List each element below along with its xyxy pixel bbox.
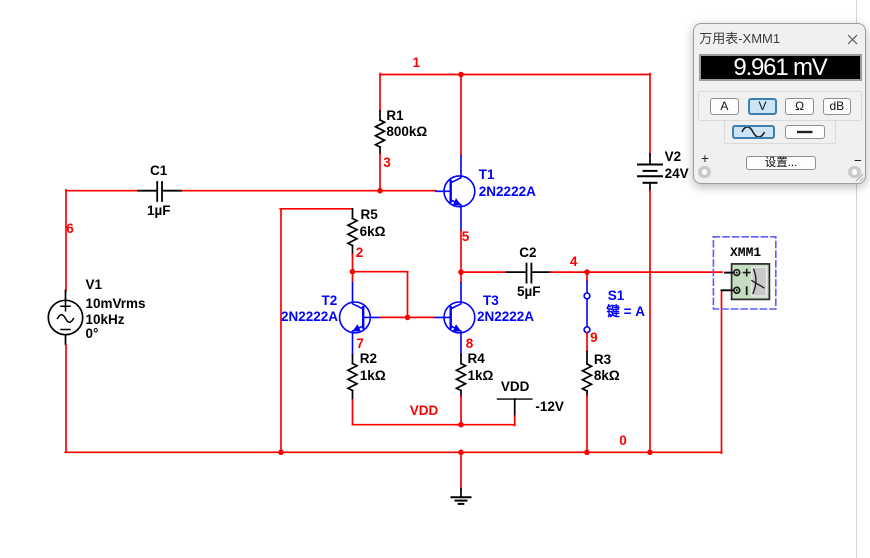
wire left inner vertical <box>280 209 282 452</box>
capacitor C2 <box>507 264 551 283</box>
wire R4 bottom <box>460 396 462 425</box>
label R2 <box>360 352 377 366</box>
junction bottom V2 <box>647 450 653 456</box>
node 2 <box>356 246 364 260</box>
node 8 <box>466 337 474 351</box>
label R1 <box>386 109 403 123</box>
label C2 value <box>517 285 541 299</box>
multimeter dialog XMM1 <box>693 23 866 184</box>
resistor R1 <box>376 111 385 154</box>
dialog close button <box>847 34 858 45</box>
wire T3 collector red stub <box>460 272 462 283</box>
label R3 value <box>594 369 620 383</box>
dialog resize grip <box>854 172 864 182</box>
node 1 <box>413 56 421 70</box>
button V selected <box>748 98 777 116</box>
junction bottom R3 <box>584 450 590 456</box>
label R5 value <box>360 225 386 239</box>
button DC <box>785 125 825 139</box>
button dB <box>823 98 852 116</box>
wire T1 collector red <box>460 75 462 157</box>
label T1 part <box>479 185 536 199</box>
label C2 <box>519 246 536 260</box>
wire XMM1 minus down <box>721 290 723 453</box>
wire R5 feed horizontal <box>280 208 352 210</box>
wire R1 top lead <box>379 74 381 111</box>
wire T2 collector red stub <box>352 272 354 283</box>
switch S1 <box>584 281 590 333</box>
node 3 <box>383 156 391 170</box>
label T3 <box>483 294 499 308</box>
label T2 part <box>281 310 338 324</box>
transistor T3 <box>434 283 475 355</box>
label T2 <box>322 294 338 308</box>
dialog right terminal <box>848 166 861 179</box>
resistor R3 <box>583 352 592 396</box>
wire V2 top <box>649 74 651 154</box>
junction node 5 <box>458 269 464 275</box>
label R3 <box>594 353 611 367</box>
node 5 <box>462 230 470 244</box>
label V1 freq <box>86 313 125 327</box>
button A <box>710 98 739 116</box>
label T1 <box>479 168 495 182</box>
dialog plus mark <box>701 151 709 166</box>
wire bottom rail <box>65 451 721 453</box>
button ohm <box>785 98 814 116</box>
wire node 9 <box>586 333 588 352</box>
transistor T1 <box>436 156 475 231</box>
button sine selected <box>732 125 775 139</box>
button settings <box>746 156 816 171</box>
node 7 <box>356 337 364 351</box>
wire R3 bottom <box>586 396 588 453</box>
label S1 <box>608 289 625 303</box>
wire V2 bottom <box>649 191 651 453</box>
label VDD net <box>410 404 439 418</box>
label S1 key <box>606 305 645 319</box>
label R2 value <box>360 369 386 383</box>
dialog title <box>699 28 780 47</box>
junction node 3 <box>377 188 383 194</box>
wire T2 emitter red and VDD rail <box>353 398 515 424</box>
label R4 <box>468 352 485 366</box>
resistor R5 <box>348 209 357 254</box>
junction node 2 <box>350 269 356 275</box>
wire node5 to C2 <box>461 271 507 273</box>
junction VDD rail <box>458 422 464 428</box>
label C1 value <box>147 204 171 218</box>
battery V2 <box>638 154 662 191</box>
label VDD power <box>501 380 530 394</box>
resistor R2 <box>348 355 357 398</box>
label R1 value <box>386 125 427 139</box>
node 4 <box>570 255 578 269</box>
wire switch top red stub <box>586 272 588 281</box>
transistor T2 <box>340 283 380 356</box>
resistor R4 <box>457 355 466 396</box>
label R4 value <box>468 369 494 383</box>
source V1 <box>48 291 82 345</box>
label V1 <box>86 278 103 292</box>
junction ground <box>458 450 464 456</box>
power VDD symbol <box>498 399 532 425</box>
wire C2 to XMM1 plus <box>550 271 722 273</box>
label V1 value <box>86 297 146 311</box>
wire T1 emitter to node 5 <box>460 231 462 273</box>
junction bottom left <box>278 450 284 456</box>
capacitor C1 <box>138 182 181 201</box>
wire node3 row to T1 base <box>181 190 436 192</box>
node 0 <box>619 434 627 448</box>
wire R1 bottom to node 3 <box>379 154 381 191</box>
dialog left terminal <box>698 166 711 179</box>
wire net1 top rail <box>380 74 650 76</box>
dialog group box modes <box>698 91 862 121</box>
label VDD voltage <box>535 400 564 414</box>
label XMM1 <box>730 245 761 260</box>
node 9 <box>590 331 598 345</box>
wire ground tap <box>460 452 462 489</box>
node 6 <box>66 222 74 236</box>
wire left vertical to V1 <box>65 190 67 291</box>
junction node 4 <box>584 269 590 275</box>
workspace edge line <box>856 0 858 558</box>
label R5 <box>361 208 378 222</box>
wire V1 bottom <box>65 345 67 453</box>
label V2 value <box>665 167 689 181</box>
dialog minus mark <box>854 153 862 168</box>
wire C1 left <box>66 190 138 192</box>
instrument XMM1 icon <box>713 237 775 309</box>
junction base node <box>405 315 411 321</box>
wire node 2 <box>353 254 408 317</box>
junction node 1 <box>458 72 464 78</box>
dialog group box waveform <box>724 120 836 144</box>
label V1 phase <box>86 327 99 341</box>
label C1 <box>150 164 167 178</box>
ground <box>452 489 471 504</box>
dialog display <box>699 54 862 81</box>
wire base T2 to T3 <box>380 316 434 318</box>
label T3 part <box>477 310 534 324</box>
label V2 <box>665 150 682 164</box>
